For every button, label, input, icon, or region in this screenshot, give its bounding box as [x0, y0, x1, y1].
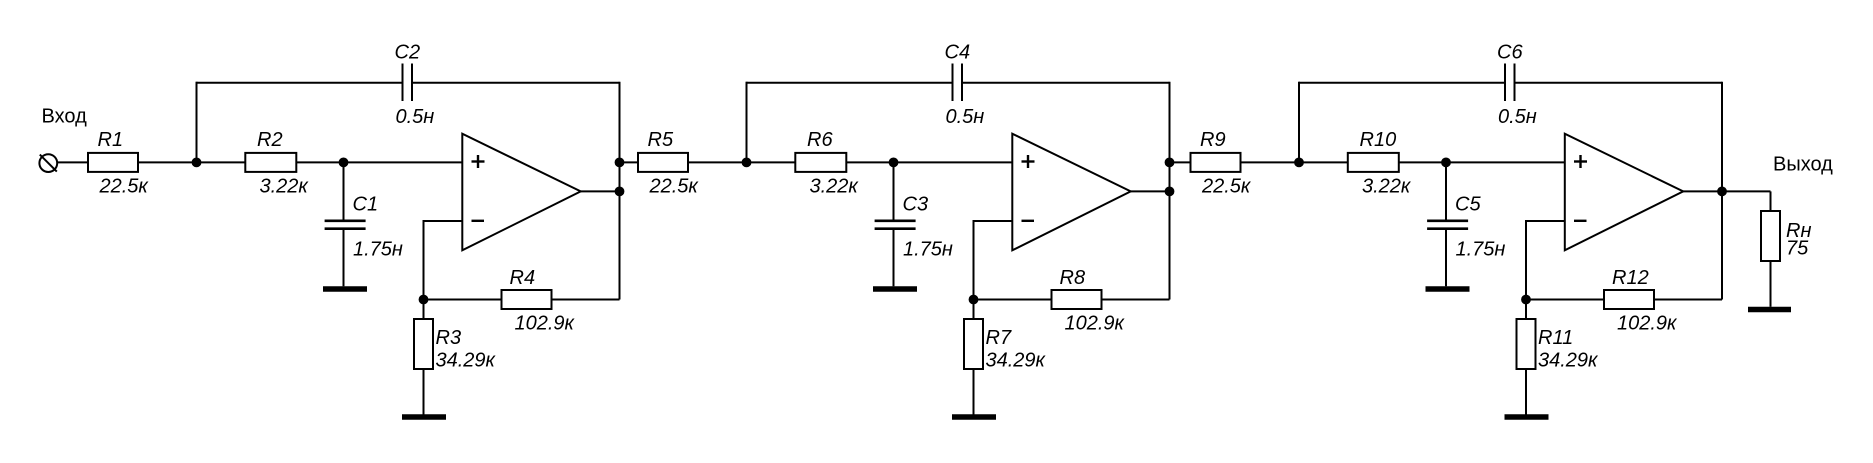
svg-text:C3: C3: [903, 194, 929, 216]
node B2: [889, 158, 899, 168]
svg-text:102.9к: 102.9к: [515, 313, 576, 335]
svg-text:22.5к: 22.5к: [649, 176, 700, 198]
svg-text:R2: R2: [257, 129, 283, 151]
input terminal: [39, 154, 57, 172]
resistor R10: [1348, 153, 1399, 172]
svg-text:0.5н: 0.5н: [1498, 106, 1537, 128]
op-amp U3: [1565, 134, 1683, 251]
resistor R12: [1604, 290, 1654, 309]
ground: [323, 286, 367, 292]
wire: [1445, 230, 1447, 286]
wire: [138, 161, 245, 163]
svg-text:34.29к: 34.29к: [436, 350, 497, 372]
node A1: [192, 158, 202, 168]
wire: [1525, 300, 1527, 320]
node O1b: [615, 187, 625, 197]
svg-text:R3: R3: [436, 327, 462, 349]
resistor R5: [638, 153, 688, 172]
svg-text:R7: R7: [986, 327, 1012, 349]
node O2a: [1165, 158, 1175, 168]
svg-text:22.5к: 22.5к: [99, 176, 150, 198]
svg-text:R6: R6: [807, 129, 833, 151]
svg-text:R1: R1: [98, 129, 124, 151]
resistor R6: [795, 153, 846, 172]
resistor R2: [245, 153, 296, 172]
node A3: [1294, 158, 1304, 168]
wire: [747, 82, 953, 84]
resistor R4: [502, 290, 552, 309]
svg-text:1.75н: 1.75н: [903, 239, 953, 261]
wire: [846, 161, 1012, 163]
wire: [197, 82, 403, 84]
wire: [893, 162, 895, 220]
wire: [962, 82, 1170, 84]
wire: [1399, 161, 1565, 163]
svg-text:R5: R5: [648, 129, 674, 151]
wire: [1654, 299, 1722, 301]
ground: [1505, 414, 1549, 420]
svg-text:3.22к: 3.22к: [1362, 176, 1412, 198]
wire: [1170, 161, 1191, 163]
capacitor C4: [953, 64, 963, 102]
op-amp U1: [462, 134, 580, 251]
svg-text:R8: R8: [1060, 267, 1086, 289]
resistor R1: [88, 153, 138, 172]
svg-text:1.75н: 1.75н: [353, 239, 403, 261]
wire: [893, 230, 895, 286]
ground: [1426, 286, 1470, 292]
node O2b: [1165, 187, 1175, 197]
svg-text:C1: C1: [353, 194, 379, 216]
wire: [1102, 299, 1170, 301]
node F1: [419, 295, 429, 305]
resistor R7: [964, 319, 983, 369]
wire: [1298, 82, 1300, 163]
capacitor C5: [1427, 221, 1468, 229]
capacitor C3: [875, 221, 916, 229]
svg-text:34.29к: 34.29к: [1538, 350, 1599, 372]
svg-text:34.29к: 34.29к: [986, 350, 1047, 372]
svg-text:102.9к: 102.9к: [1617, 313, 1678, 335]
svg-text:102.9к: 102.9к: [1065, 313, 1126, 335]
wire: [1241, 161, 1348, 163]
svg-text:3.22к: 3.22к: [260, 176, 310, 198]
resistor Rн: [1761, 211, 1780, 261]
wire: [1683, 190, 1770, 192]
node A2: [742, 158, 752, 168]
wire: [424, 220, 463, 222]
wire: [1721, 82, 1723, 300]
svg-text:R10: R10: [1360, 129, 1397, 151]
svg-text:0.5н: 0.5н: [946, 106, 985, 128]
svg-text:Вход: Вход: [42, 105, 88, 127]
wire: [412, 82, 620, 84]
wire: [296, 161, 462, 163]
wire: [552, 299, 620, 301]
svg-text:C4: C4: [945, 42, 971, 64]
wire: [581, 190, 620, 192]
svg-text:1.75н: 1.75н: [1456, 239, 1506, 261]
wire: [343, 162, 345, 220]
capacitor C2: [403, 64, 413, 102]
ground: [873, 286, 917, 292]
capacitor C6: [1505, 64, 1515, 102]
wire: [973, 369, 975, 415]
wire: [1526, 220, 1565, 222]
wire: [619, 82, 621, 300]
wire: [1525, 220, 1527, 300]
wire: [1770, 261, 1772, 307]
svg-text:C5: C5: [1455, 194, 1481, 216]
node B3: [1441, 158, 1451, 168]
ground: [402, 414, 446, 420]
wire: [1515, 82, 1723, 84]
wire: [974, 220, 1013, 222]
svg-text:22.5к: 22.5к: [1201, 176, 1252, 198]
wire: [1131, 190, 1170, 192]
svg-text:R11: R11: [1538, 327, 1573, 349]
wire: [1445, 162, 1447, 220]
svg-text:R4: R4: [510, 267, 536, 289]
wire: [1169, 82, 1171, 300]
wire: [343, 230, 345, 286]
wire: [423, 369, 425, 415]
wire: [746, 82, 748, 163]
wire: [1770, 191, 1772, 211]
svg-text:R12: R12: [1612, 267, 1649, 289]
svg-text:0.5н: 0.5н: [396, 106, 435, 128]
wire: [973, 220, 975, 300]
node F3: [1521, 295, 1531, 305]
resistor R3: [414, 319, 433, 369]
wire: [620, 161, 639, 163]
wire: [973, 300, 975, 320]
wire: [688, 161, 795, 163]
wire: [1525, 369, 1527, 415]
capacitor C1: [325, 221, 366, 229]
wire: [423, 220, 425, 300]
resistor R9: [1191, 153, 1241, 172]
wire: [57, 161, 88, 163]
wire: [1299, 82, 1505, 84]
wire: [196, 82, 198, 163]
svg-text:Выход: Выход: [1773, 154, 1833, 176]
wire: [1526, 299, 1604, 301]
ground: [952, 414, 996, 420]
svg-text:C6: C6: [1497, 42, 1523, 64]
svg-text:75: 75: [1786, 238, 1809, 260]
node O3b: [1717, 187, 1727, 197]
ground: [1748, 307, 1791, 313]
svg-text:3.22к: 3.22к: [810, 176, 860, 198]
resistor R11: [1517, 319, 1536, 369]
node O1a: [615, 158, 625, 168]
resistor R8: [1052, 290, 1102, 309]
wire: [424, 299, 502, 301]
svg-text:R9: R9: [1200, 129, 1226, 151]
wire: [423, 300, 425, 320]
op-amp U2: [1012, 134, 1130, 251]
svg-text:C2: C2: [395, 42, 421, 64]
wire: [974, 299, 1052, 301]
node F2: [969, 295, 979, 305]
node B1: [339, 158, 349, 168]
